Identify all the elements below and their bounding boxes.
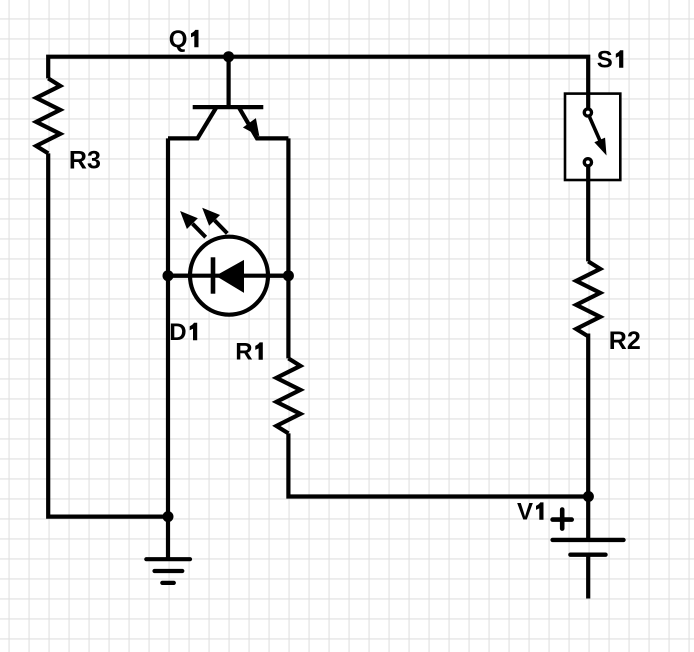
svg-text:S: S (597, 47, 613, 74)
svg-text:Q: Q (169, 26, 188, 53)
svg-text:R3: R3 (69, 146, 101, 174)
svg-text:D: D (169, 319, 186, 346)
svg-text:R2: R2 (609, 327, 641, 355)
svg-text:R: R (235, 339, 252, 366)
svg-text:V: V (517, 499, 533, 526)
